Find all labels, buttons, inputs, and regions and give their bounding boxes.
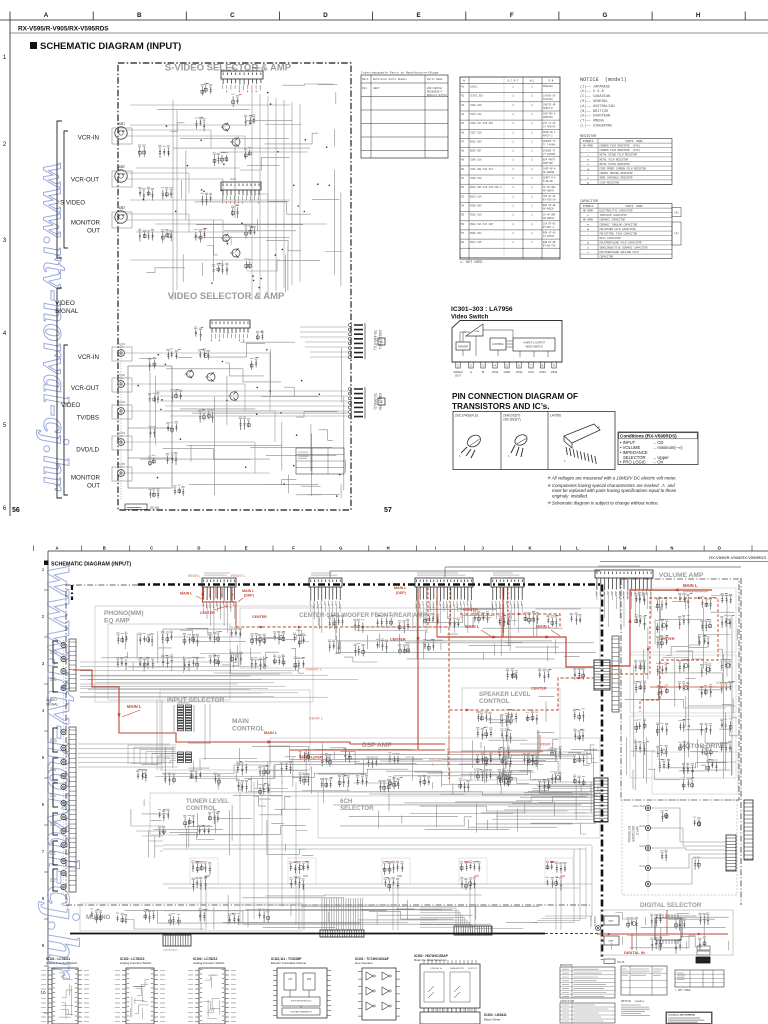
svg-text:(G)—— EUROPEAN: (G)—— EUROPEAN	[580, 114, 610, 119]
svg-text:→ On: → On	[652, 460, 664, 465]
svg-text:CEMENT MOLDED RESISTOR: CEMENT MOLDED RESISTOR	[600, 172, 634, 175]
IC404 LB1641 motor driver	[420, 1012, 480, 1024]
svg-text:VIDEO: VIDEO	[61, 402, 80, 409]
front/rear amp clusters right	[507, 671, 518, 680]
svg-text:(T)—— OMENA: (T)—— OMENA	[580, 119, 605, 124]
parts usage table	[460, 77, 560, 259]
bus left staircase	[130, 826, 163, 851]
tuner level box	[150, 793, 262, 835]
center-sub woofer amp clusters	[329, 618, 344, 629]
svg-text:6CH: 6CH	[340, 798, 353, 805]
bus cluster drop wires	[201, 884, 561, 930]
svg-text:CENTER: CENTER	[200, 611, 215, 615]
svg-text:AT-A5703: AT-A5703	[543, 235, 555, 238]
right vertical connector far right	[744, 800, 753, 860]
dsp amp clusters	[299, 752, 310, 762]
S-VIDEO/VIDEO selector board outline (dash-dot)	[118, 63, 351, 510]
svg-text:POLYESTER FILM CAPACITOR: POLYESTER FILM CAPACITOR	[600, 228, 637, 231]
digital selector mesh	[612, 913, 729, 951]
external decoder jack rail	[647, 802, 649, 892]
svg-text:B: B	[103, 546, 106, 551]
bus fan-down to lower bundle	[533, 846, 592, 923]
svg-text:BT-A553-B: BT-A553-B	[543, 199, 556, 202]
svg-text:A: A	[55, 546, 58, 551]
svg-text:✳: NOT USED: ✳: NOT USED	[460, 261, 482, 265]
svg-text:SPEAKER LEVEL: SPEAKER LEVEL	[479, 691, 531, 698]
svg-text:DSP AMP: DSP AMP	[362, 742, 392, 749]
svg-text:PARTS NAME: PARTS NAME	[625, 140, 643, 143]
IC301 pins	[456, 362, 460, 368]
svg-text:GND: GND	[504, 370, 512, 374]
watermark www.rtv-norval-cj.hr (top page)	[36, 163, 76, 492]
svg-text:RD28UESG/T: RD28UESG/T	[427, 90, 443, 94]
svg-text:NO MARK: NO MARK	[583, 210, 594, 213]
center-sub amp box	[240, 608, 600, 668]
svg-text:originaly installed.: originaly installed.	[552, 493, 588, 498]
svg-text:DECODER: DECODER	[631, 826, 635, 843]
svg-text:R.B: R.B	[549, 80, 554, 83]
svg-text:C: C	[230, 12, 235, 19]
svg-text:SIGNAL: SIGNAL	[55, 308, 79, 315]
input selector box	[160, 690, 310, 770]
svg-text:CENTER: CENTER	[390, 638, 406, 642]
svg-text:EQ AMP: EQ AMP	[104, 618, 130, 625]
S-video jack AU81	[115, 127, 127, 139]
video jack group box	[128, 366, 172, 488]
s-video wiring mesh	[146, 84, 342, 292]
S VIDEO group bracket	[57, 121, 62, 258]
red net CENTER dashed in c-s woofer amp	[460, 614, 560, 627]
rear panel jack column (audio inputs)	[63, 640, 65, 895]
svg-text:Analog Function Switch: Analog Function Switch	[193, 961, 225, 965]
svg-text:TRANSISTORS AND IC’s.: TRANSISTORS AND IC’s.	[452, 402, 550, 411]
svg-text:PHOTTOM: PHOTTOM	[543, 162, 553, 165]
svg-text:IC301–303 : LA7956: IC301–303 : LA7956	[451, 306, 513, 313]
red accents on supply clusters	[195, 862, 210, 876]
red net volume amp lower	[650, 686, 730, 688]
RCA jack PJ204	[118, 439, 125, 446]
connector below line CB120	[163, 935, 191, 946]
svg-text:NO MARK: NO MARK	[583, 219, 594, 222]
svg-text:2SC1740S(R,S): 2SC1740S(R,S)	[455, 414, 478, 418]
svg-text:OUT: OUT	[87, 483, 100, 490]
conditions box (bottom)	[666, 1012, 712, 1024]
svg-text:43: 43	[461, 104, 465, 107]
svg-text:G: G	[602, 12, 607, 19]
svg-text:(DSP): (DSP)	[244, 594, 255, 598]
svg-text:R308 304: R308 304	[470, 232, 482, 235]
svg-text:Mark: Mark	[362, 77, 369, 81]
s-video amp component clusters	[195, 120, 205, 132]
svg-text:CAPACITOR: CAPACITOR	[560, 1000, 574, 1003]
IC201 switch block	[221, 71, 263, 79]
svg-text:(J)—— JAPANESE: (J)—— JAPANESE	[580, 84, 610, 89]
top rail wire to volume amp	[330, 567, 741, 578]
svg-text:E: E	[245, 546, 248, 551]
svg-text:R301 314 317 325: R301 314 317 325	[470, 223, 494, 226]
transistor Q204	[232, 249, 240, 257]
digital selector box	[601, 910, 733, 955]
interchangeable parts table (bottom)	[621, 966, 667, 995]
page title SCHEMATIC DIAGRAM (INPUT)	[30, 42, 37, 49]
svg-text:CENTER: CENTER	[252, 615, 267, 619]
svg-text:56: 56	[12, 507, 20, 514]
svg-text:AP-AB3AB: AP-AB3AB	[543, 171, 555, 174]
svg-text:U.C.M.T: U.C.M.T	[508, 80, 519, 83]
svg-text:ALL: ALL	[530, 80, 535, 83]
transistor Q303	[230, 392, 238, 400]
svg-text:VOL: VOL	[716, 681, 723, 685]
top ruler line	[0, 19, 768, 21]
harness connector CB107 TO DFE(2)	[349, 388, 352, 391]
svg-text:SELECTOR: SELECTOR	[340, 805, 374, 812]
digital selector clusters	[627, 920, 638, 931]
svg-text:H: H	[696, 12, 701, 19]
6ch selector mesh (long horizontals)	[324, 772, 596, 834]
external decoder label	[627, 826, 631, 843]
svg-text:SEMICONDUCTIVE CERAMIC CAPACIT: SEMICONDUCTIVE CERAMIC CAPACITOR	[600, 246, 649, 249]
svg-text:MAIN L: MAIN L	[242, 589, 255, 593]
svg-text:TANTALUM CAPACITOR: TANTALUM CAPACITOR	[600, 214, 628, 217]
svg-text:FIRE PROOF CARBON FILM RESISTO: FIRE PROOF CARBON FILM RESISTOR	[600, 168, 647, 171]
RCA jack PJ203	[118, 408, 125, 415]
vertical fan-out to connector	[322, 898, 363, 930]
6ch selector clusters	[338, 777, 349, 787]
heavy board bottom line	[70, 933, 545, 935]
connector CB905 (wide)	[595, 570, 653, 578]
svg-text:PJ201: PJ201	[117, 342, 125, 346]
external decoder jack SUR R	[645, 865, 650, 870]
svg-text:LA2AL: LA2AL	[470, 86, 478, 89]
signal bus (horizontal bundle)	[163, 845, 592, 888]
svg-text:PJ205: PJ205	[117, 462, 125, 466]
input selector mesh	[131, 743, 310, 791]
external decoder wires to connector	[651, 808, 726, 884]
control block	[490, 338, 506, 350]
svg-text:48: 48	[461, 150, 465, 153]
board-to-board connector P601 (main L)	[594, 660, 610, 690]
svg-text:CONTROL: CONTROL	[232, 726, 265, 733]
wires into P602	[492, 782, 594, 819]
transistor Q202	[232, 138, 240, 146]
red pins under CB901	[203, 587, 237, 627]
svg-text:(C)—— CANADIAN: (C)—— CANADIAN	[580, 94, 610, 99]
svg-text:MAIN: MAIN	[232, 718, 249, 725]
svg-text:AU83: AU83	[117, 206, 125, 210]
fan-out connector	[320, 930, 364, 937]
DR boxes	[697, 946, 710, 950]
svg-text:MAIN L: MAIN L	[127, 704, 142, 709]
svg-text:CERAMIC CAPACITOR: CERAMIC CAPACITOR	[600, 219, 626, 222]
IC202 switch block	[221, 182, 261, 190]
IC301 switch block	[210, 320, 250, 328]
svg-text:B303 307: B303 307	[470, 150, 482, 153]
svg-text:41: 41	[461, 86, 465, 89]
svg-text:CARBON FILM RESISTOR (P=S): CARBON FILM RESISTOR (P=S)	[600, 145, 641, 148]
svg-text:EXTERNAL: EXTERNAL	[627, 826, 631, 843]
svg-text:4067: 4067	[373, 87, 380, 90]
svg-text:E: E	[417, 12, 421, 19]
digital signal label	[589, 916, 593, 928]
svg-text:AP-AB478: AP-AB478	[543, 189, 555, 192]
connector comb mid-bottom	[454, 926, 492, 935]
coaxial jack	[596, 926, 601, 931]
IC301 internal wires	[460, 330, 548, 357]
external decoder jack aux	[645, 881, 650, 886]
RCA jack PJ202	[118, 381, 125, 388]
svg-text:58: 58	[461, 241, 465, 244]
svg-text:MONITOR: MONITOR	[71, 220, 101, 227]
svg-text:VCR-OUT: VCR-OUT	[71, 385, 99, 392]
svg-text:VIN4: VIN4	[551, 370, 558, 374]
svg-text:CENTER: CENTER	[463, 608, 478, 612]
svg-text:AP-2B418: AP-2B418	[543, 217, 555, 220]
external decoder jack SUR L	[645, 845, 650, 850]
svg-text:PARTS NAME: PARTS NAME	[625, 205, 643, 208]
svg-text:CERAMIC TUBULAR CAPACITOR: CERAMIC TUBULAR CAPACITOR	[600, 223, 638, 226]
svg-text:CENTER-SUB WOOFER FRONT/REAR A: CENTER-SUB WOOFER FRONT/REAR AMP	[299, 612, 427, 619]
speaker level control clusters	[477, 714, 491, 724]
svg-text:MAIN L: MAIN L	[180, 592, 193, 596]
svg-text:AP537-2: AP537-2	[543, 135, 553, 138]
svg-text:CONTROL: CONTROL	[492, 343, 504, 346]
svg-text:L-B: L-B	[288, 978, 292, 981]
svg-text:TO INPUT(1): TO INPUT(1)	[373, 330, 377, 350]
transistor Q201	[223, 124, 230, 131]
svg-text:SUB: SUB	[639, 824, 645, 828]
input selector lower stack	[178, 752, 184, 754]
svg-text:✳ All voltages are measured wi: ✳ All voltages are measured with a 10MΩ/…	[547, 476, 677, 481]
svg-text:PJ204: PJ204	[117, 431, 125, 435]
svg-text:CONTROL: CONTROL	[479, 698, 510, 705]
external decoder jack CEN-TER	[645, 805, 650, 810]
svg-text:Parts Name: Parts Name	[427, 78, 443, 81]
red net volume amp MAIN L loop	[610, 590, 712, 666]
svg-text:→ minimum(−∞): → minimum(−∞)	[652, 445, 683, 450]
TO-92 drawing 1	[465, 433, 482, 450]
svg-text:PJ203: PJ203	[117, 400, 125, 404]
svg-text:DVD/LD: DVD/LD	[76, 447, 99, 454]
watermark (bottom page)	[38, 565, 89, 980]
svg-text:REAR L: REAR L	[188, 574, 201, 578]
svg-text:DIGITAL SELECTOR: DIGITAL SELECTOR	[640, 902, 702, 909]
main control wiring mesh	[240, 740, 600, 795]
svg-text:REAR L: REAR L	[309, 717, 324, 721]
svg-text:B: B	[137, 12, 142, 19]
conditions box	[618, 432, 698, 465]
red net volume amp dashed loop	[610, 598, 718, 712]
motor drive box	[652, 752, 738, 794]
LA7956 SIP package drawing	[564, 424, 600, 443]
svg-text:OPT: OPT	[608, 939, 614, 943]
svg-text:4-INPUT 1-OUTPUT: 4-INPUT 1-OUTPUT	[523, 342, 545, 345]
volume amp connector (left pins)	[612, 636, 619, 712]
digital connector block	[696, 957, 710, 963]
svg-text:SY4224A: SY4224A	[543, 98, 553, 101]
svg-text:MAIN L: MAIN L	[264, 731, 278, 735]
connector feed wires	[156, 327, 348, 416]
svg-text:K: K	[528, 546, 531, 551]
svg-text:PHONO(MM): PHONO(MM)	[104, 610, 144, 617]
svg-text:VCC: VCC	[528, 370, 535, 374]
motor drive cluster	[659, 761, 670, 772]
video amp clusters	[149, 360, 156, 372]
svg-text:• PRO LOGIC: • PRO LOGIC	[620, 460, 646, 465]
svg-text:Hex Inverters: Hex Inverters	[355, 961, 373, 965]
svg-text:AP-AB220: AP-AB220	[543, 208, 555, 211]
svg-text:49: 49	[461, 159, 465, 162]
selector drop bundle	[240, 782, 296, 925]
phono eq amp clusters	[117, 635, 128, 644]
svg-text:MAIN L: MAIN L	[394, 586, 407, 590]
svg-text:±4dB: ±4dB	[475, 331, 480, 333]
volume amp dash-dot box	[621, 579, 739, 800]
harness connector CB101 TO INPUT(1)	[349, 324, 352, 327]
svg-text:AU81: AU81	[117, 122, 125, 126]
tuner mesh	[131, 795, 314, 858]
svg-text:D: D	[197, 546, 200, 551]
svg-text:A: A	[470, 370, 472, 374]
S-video jack AU83	[115, 211, 127, 223]
right vertical bus (s-video)	[252, 92, 300, 300]
svg-text:A: A	[44, 12, 49, 19]
svg-text:C316 317 325 326: C316 317 325 326	[470, 122, 494, 125]
svg-text:50: 50	[461, 168, 465, 171]
svg-text:VIN3: VIN3	[539, 370, 546, 374]
svg-text:G: G	[339, 546, 342, 551]
input pin header CB101	[69, 639, 76, 691]
svg-text:C301 302 331 314: C301 302 331 314	[470, 168, 494, 171]
svg-text:R309 303: R309 303	[470, 205, 482, 208]
svg-text:Interchangeable Parts at Manuf: Interchangeable Parts at Manufacturer/St…	[361, 71, 439, 75]
phono lower bundle	[80, 676, 286, 696]
svg-text:OUT: OUT	[87, 228, 100, 235]
svg-text:SYMBOLS: SYMBOLS	[583, 140, 594, 143]
svg-text:MONITOR: MONITOR	[71, 475, 101, 482]
RCA jack PJ201	[118, 350, 125, 357]
svg-text:PIN CONNECTION DIAGRAM OF: PIN CONNECTION DIAGRAM OF	[452, 392, 578, 401]
phono wiring mesh	[101, 627, 309, 674]
svg-text:METAL PLATE RESISTOR: METAL PLATE RESISTOR	[600, 163, 631, 166]
volume amp mesh	[625, 590, 738, 790]
external decoder input box	[622, 800, 737, 895]
transistor Q302	[207, 373, 215, 381]
svg-text:CARBON FILM RESISTOR (P=W): CARBON FILM RESISTOR (P=W)	[600, 149, 641, 152]
transistor Q301	[187, 371, 194, 378]
svg-text:SYMBOLS: SYMBOLS	[583, 205, 594, 208]
svg-text:VCR-IN: VCR-IN	[78, 135, 99, 142]
selector fan-out nested wires	[128, 745, 176, 764]
svg-text:Electric Controlled Volume: Electric Controlled Volume	[271, 961, 307, 965]
svg-text:CENTER: CENTER	[531, 687, 547, 691]
svg-text:RX-V595/R-V905/RX-V595RDS: RX-V595/R-V905/RX-V595RDS	[18, 26, 109, 33]
svg-text:VT CE1905: VT CE1905	[543, 153, 556, 156]
svg-text:(E): (E)	[674, 232, 679, 235]
svg-text:NO MARK: NO MARK	[583, 145, 594, 148]
svg-text:BT-B57-2: BT-B57-2	[543, 226, 555, 229]
svg-text:Motor Driver: Motor Driver	[484, 1018, 501, 1022]
svg-text:IC404 : LB1641: IC404 : LB1641	[484, 1013, 507, 1017]
svg-text:(U)—— U.S.A: (U)—— U.S.A	[580, 89, 605, 94]
capacitor group brackets	[672, 208, 681, 217]
svg-text:F: F	[510, 12, 514, 19]
svg-text:L: L	[576, 546, 579, 551]
transistor package boxes	[453, 412, 615, 470]
svg-text:I: I	[435, 546, 436, 551]
svg-text:SUR: SUR	[639, 844, 645, 848]
svg-text:✳ Schematic diagram is subject: ✳ Schematic diagram is subject to change…	[547, 501, 659, 506]
svg-text:VIN2: VIN2	[516, 370, 523, 374]
connector CB903	[415, 578, 473, 587]
svg-text:FRONT L: FRONT L	[306, 668, 323, 672]
svg-text:(A)—— AUSTRALIAN: (A)—— AUSTRALIAN	[580, 104, 615, 109]
wires into mid-bottom connector	[420, 908, 474, 927]
main board outline dash-dot (thin)	[66, 585, 590, 905]
svg-text:Analog Function Switch: Analog Function Switch	[46, 961, 78, 965]
driver block	[456, 342, 470, 350]
svg-text:VCR-OUT: VCR-OUT	[71, 177, 99, 184]
svg-text:C: C	[150, 546, 153, 551]
PCB boundary thick dash-dot vertical	[601, 585, 604, 961]
connector CB902	[309, 578, 342, 587]
svg-text:CI AP9378: CI AP9378	[543, 125, 556, 128]
transistor Q203	[223, 235, 230, 242]
top ruler ticks	[10, 12, 745, 21]
svg-text:B301 303: B301 303	[470, 140, 482, 143]
left margin line	[9, 20, 11, 516]
speaker level mesh	[473, 696, 559, 780]
svg-text:CONTROL: CONTROL	[186, 805, 217, 812]
svg-text:CAPACITOR: CAPACITOR	[600, 256, 614, 259]
svg-text:NOTICE (model): NOTICE (model)	[580, 77, 627, 83]
svg-text:B313 314: B313 314	[470, 195, 482, 198]
svg-text:SCHEMATIC DIAGRAM (INPUT): SCHEMATIC DIAGRAM (INPUT)	[40, 41, 181, 52]
svg-text:AP937-R: AP937-R	[543, 107, 553, 110]
center-sub wiring mesh	[319, 609, 596, 662]
svg-text:POLYSTYROL FILM CAPACITOR: POLYSTYROL FILM CAPACITOR	[600, 233, 638, 236]
svg-text:CC301.3G2: CC301.3G2	[470, 95, 483, 98]
svg-text:FRONT: FRONT	[429, 758, 443, 762]
input pin header CB102	[69, 727, 76, 892]
svg-text:Dual 4 to Data Selectors: Dual 4 to Data Selectors	[414, 958, 447, 962]
lower bus mesh	[125, 895, 539, 930]
jack strip thick dash (left)	[71, 585, 73, 600]
svg-text:SIGNAL: SIGNAL	[46, 703, 59, 707]
svg-text:STROBE A: STROBE A	[430, 967, 442, 970]
svg-text:DATA INPUTS: DATA INPUTS	[450, 967, 465, 970]
svg-text:CEN-TER: CEN-TER	[633, 804, 645, 808]
muting clusters	[91, 911, 102, 923]
svg-text:TO DFE(2): TO DFE(2)	[373, 393, 377, 410]
bottom page title	[44, 561, 49, 566]
svg-text:IC2Bb: IC2Bb	[252, 66, 261, 70]
board label box (digital)	[604, 959, 615, 964]
svg-text:TUNER LEVEL: TUNER LEVEL	[186, 798, 229, 805]
svg-text:AUDIO: AUDIO	[46, 698, 57, 702]
svg-text:45: 45	[461, 122, 465, 125]
video switch block	[513, 338, 555, 351]
PCB boundary thick dash-dot horizontal	[138, 583, 602, 586]
wire drops under connectors	[204, 592, 651, 633]
phono block box	[95, 606, 313, 702]
connector CB901	[202, 578, 236, 587]
svg-text:47: 47	[461, 140, 465, 143]
svg-text:R319 310: R319 310	[470, 214, 482, 217]
svg-text:57: 57	[461, 232, 465, 235]
main control clusters	[237, 763, 248, 775]
svg-text:Conditions (RX-V595RDS): Conditions (RX-V595RDS)	[668, 1014, 695, 1017]
optical input block 2	[604, 936, 619, 945]
